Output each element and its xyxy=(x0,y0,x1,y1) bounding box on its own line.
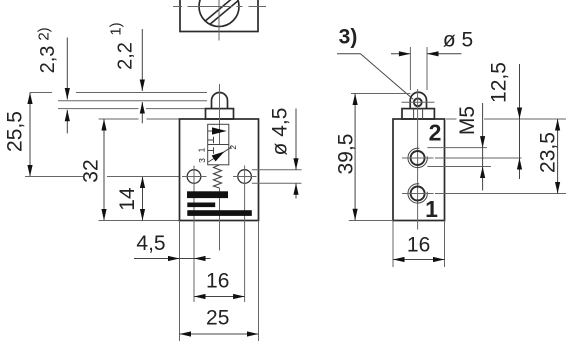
roller crosshair xyxy=(402,101,435,103)
port 1 circle xyxy=(411,187,425,201)
svg-text:3: 3 xyxy=(197,158,207,163)
dimension diameter 5 xyxy=(391,47,462,90)
svg-text:2): 2) xyxy=(36,27,53,40)
svg-text:3): 3) xyxy=(339,26,358,49)
svg-text:4,5: 4,5 xyxy=(136,232,165,255)
side view dome xyxy=(410,92,426,108)
valve symbol divider xyxy=(208,144,229,146)
svg-text:1): 1) xyxy=(108,22,125,35)
dimension 12,5 xyxy=(517,64,522,179)
dimension 4,5 xyxy=(134,256,211,261)
valve symbol blocked port bottom xyxy=(208,147,214,153)
mounting hole right xyxy=(238,170,252,184)
valve symbol diagonal arrow xyxy=(208,147,231,162)
svg-text:25: 25 xyxy=(206,307,229,330)
port 1 thread arc xyxy=(408,184,427,203)
extension line L1 released position xyxy=(30,92,52,94)
front view plunger pedestal xyxy=(206,109,234,119)
extension lines below front body xyxy=(179,221,181,342)
top view horizontal centerline xyxy=(173,6,266,8)
dimension diameter 4,5 xyxy=(252,109,302,199)
dimension 16 front xyxy=(194,294,245,299)
svg-text:1: 1 xyxy=(425,196,438,222)
svg-text:2,3: 2,3 xyxy=(37,46,59,74)
valve symbol blocked port top xyxy=(208,137,214,143)
dimension 2,3 leader and arrows xyxy=(65,38,70,134)
side view pedestal xyxy=(402,109,434,119)
dimension 25 xyxy=(180,331,259,336)
hole centerline right vertical xyxy=(244,166,246,303)
dimension 16 side xyxy=(393,221,445,268)
valve symbol box xyxy=(208,124,229,165)
side view vertical centerline xyxy=(417,89,419,230)
extension line port 2 center xyxy=(435,157,522,159)
roller pin circle xyxy=(414,98,422,106)
svg-text:16: 16 xyxy=(407,234,430,257)
front view body xyxy=(180,119,259,221)
side view body xyxy=(393,119,445,221)
front view plunger dome xyxy=(212,93,228,109)
svg-text:32: 32 xyxy=(80,159,103,182)
dimension 2,2 leader and arrows xyxy=(140,29,145,123)
dimension 32 xyxy=(99,119,180,221)
dimension 39,5 xyxy=(349,94,410,221)
dimension 23,5 xyxy=(555,119,560,194)
svg-text:ø 5: ø 5 xyxy=(443,29,473,52)
dimension 25,5 xyxy=(25,93,83,177)
screw slot lines xyxy=(206,0,237,21)
svg-text:1: 1 xyxy=(197,147,207,152)
extension line side body top xyxy=(446,118,457,120)
svg-text:ø 4,5: ø 4,5 xyxy=(269,108,292,156)
svg-text:14: 14 xyxy=(116,187,139,211)
extension line port 1 center xyxy=(435,193,566,195)
label bars xyxy=(187,191,228,198)
dimension M5 xyxy=(480,103,485,191)
mounting hole left xyxy=(187,170,201,184)
side view stem lines xyxy=(413,109,415,119)
svg-text:12,5: 12,5 xyxy=(488,62,511,103)
top view vertical centerline xyxy=(218,0,220,41)
dimension 14 xyxy=(107,177,180,221)
valve symbol spring xyxy=(214,165,222,188)
top view housing rectangle xyxy=(180,0,258,32)
svg-text:2: 2 xyxy=(429,120,442,146)
svg-text:2,2: 2,2 xyxy=(115,42,137,70)
top view screw head circle xyxy=(199,0,239,27)
valve symbol flow arrow xyxy=(208,130,213,132)
svg-text:25,5: 25,5 xyxy=(4,111,27,152)
svg-text:16: 16 xyxy=(206,270,229,293)
front view vertical centerline xyxy=(219,84,221,145)
hole centerline left vertical xyxy=(193,166,195,303)
extension line port 2 top xyxy=(427,147,487,149)
port 2 crosshair xyxy=(402,157,434,159)
svg-text:39,5: 39,5 xyxy=(335,134,358,175)
extension line L3 end position xyxy=(58,108,139,110)
port 2 circle xyxy=(411,151,425,165)
svg-text:M5: M5 xyxy=(456,106,479,135)
svg-text:23,5: 23,5 xyxy=(537,132,560,173)
extension line port 2 bottom xyxy=(427,166,491,168)
extension line body top xyxy=(99,118,139,120)
leader 3) xyxy=(337,53,361,55)
svg-text:2: 2 xyxy=(228,145,238,150)
extension line L2 operating position xyxy=(58,100,207,102)
port 1 crosshair xyxy=(402,193,434,195)
port 2 thread arc xyxy=(408,148,427,167)
